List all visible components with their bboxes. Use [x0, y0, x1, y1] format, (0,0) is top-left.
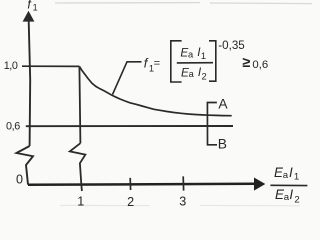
svg-text:A: A — [218, 96, 228, 111]
line B at 0,6 — [26, 125, 233, 127]
svg-text:1: 1 — [33, 3, 38, 13]
x-axis title fraction bar — [270, 184, 307, 186]
svg-text:0,6: 0,6 — [252, 59, 268, 71]
svg-text:1,0: 1,0 — [4, 60, 18, 72]
svg-text:a: a — [283, 170, 289, 181]
svg-text:I: I — [289, 187, 293, 202]
formula left bracket — [171, 41, 182, 82]
scan streak top — [55, 3, 312, 4]
x=1 break zigzag — [70, 143, 86, 191]
svg-text:3: 3 — [179, 195, 186, 207]
svg-text:a: a — [188, 49, 194, 59]
svg-text:a: a — [189, 69, 195, 79]
svg-text:1: 1 — [77, 194, 84, 207]
svg-text:0: 0 — [16, 172, 23, 186]
svg-text:1: 1 — [294, 172, 299, 183]
x-axis arrowhead — [254, 178, 265, 191]
x-axis tick 3 — [182, 176, 184, 190]
svg-text:1: 1 — [201, 51, 206, 61]
svg-text:2: 2 — [202, 71, 207, 81]
x-axis tick 2 — [129, 178, 131, 190]
curve A — [79, 66, 231, 115]
y-axis line — [29, 21, 31, 146]
tick line 1,0 — [22, 65, 79, 67]
svg-text:2: 2 — [127, 195, 134, 207]
svg-text:I: I — [289, 165, 293, 180]
formula right bracket — [209, 41, 216, 81]
svg-text:=: = — [154, 58, 161, 70]
y-axis break zigzag — [17, 146, 34, 185]
leader line to formula — [113, 62, 142, 95]
callout bracket A/B — [207, 103, 217, 145]
y-axis arrowhead — [23, 11, 35, 22]
scan streak bottom — [60, 204, 300, 206]
svg-text:2: 2 — [294, 194, 299, 205]
svg-text:≥: ≥ — [242, 55, 250, 71]
vertical line at x=1 — [79, 66, 80, 143]
svg-text:0,6: 0,6 — [6, 120, 20, 132]
svg-text:B: B — [218, 136, 227, 151]
svg-text:-0,35: -0,35 — [218, 39, 244, 52]
x-axis line — [28, 184, 255, 185]
fraction bar — [177, 62, 213, 64]
